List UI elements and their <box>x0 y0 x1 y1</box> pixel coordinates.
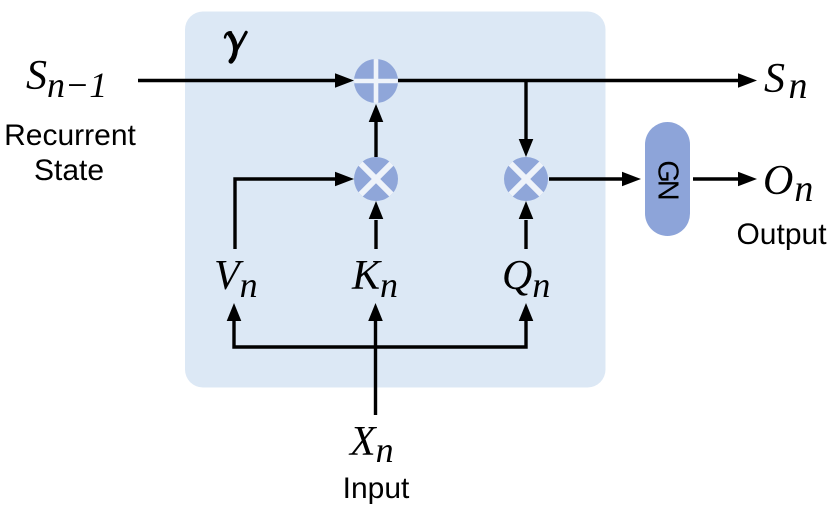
arrow up to Q_n <box>519 303 534 321</box>
wire: S_{n-1} to plus node <box>138 79 337 82</box>
svg-text:Xn: Xn <box>348 419 394 470</box>
wire: plus node to S_n <box>398 79 740 82</box>
node multiply1: circle with X <box>354 157 398 201</box>
wire: bottom distribution bus <box>234 320 526 347</box>
wire: branch down from S line into multiply2 <box>524 81 527 141</box>
svg-text:Output: Output <box>736 218 827 251</box>
svg-text:Sn: Sn <box>764 56 808 107</box>
GN block <box>645 122 690 236</box>
svg-text:Recurrent: Recurrent <box>4 119 136 152</box>
node add: circle with plus <box>354 59 398 103</box>
label gamma <box>225 32 246 61</box>
svg-text:Input: Input <box>343 472 410 505</box>
arrow up to V_n <box>227 303 242 321</box>
wire: K up into multiply1 <box>374 220 377 249</box>
wire: multiply2 to GN <box>549 177 624 180</box>
svg-text:On: On <box>763 158 813 210</box>
background panel <box>185 12 606 388</box>
node multiply2: circle with X <box>504 157 548 201</box>
wire: multiply1 up to add node <box>374 121 377 157</box>
arrow up to K_n with X input line <box>374 320 377 415</box>
wire: GN to O_n <box>693 177 740 180</box>
svg-text:State: State <box>34 154 104 187</box>
svg-text:Sn−1: Sn−1 <box>26 53 107 105</box>
wire: Q up into multiply2 <box>524 220 527 249</box>
wire: V elbow into multiply1 <box>235 179 336 249</box>
svg-text:GN: GN <box>652 160 684 199</box>
